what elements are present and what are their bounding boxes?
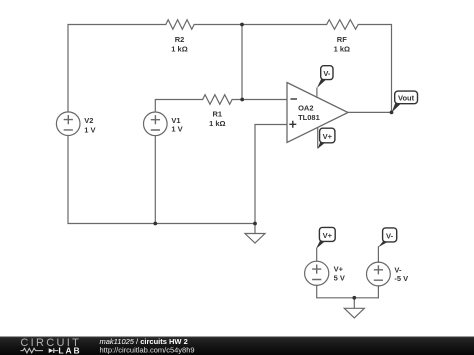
svg-text:1 kΩ: 1 kΩ [209,119,225,128]
svg-text:5 V: 5 V [334,274,345,283]
svg-text:1 kΩ: 1 kΩ [171,44,187,53]
wire ground stub 2 [353,298,355,309]
node flag V- (supply rail) [378,228,397,247]
svg-text:V+: V+ [323,132,333,141]
junction ground rail [253,222,257,226]
wire V1 top to R1 [155,100,202,112]
wire op-amp non-inverting input down [255,125,287,224]
resistor R1 [203,95,233,105]
resistor RF [327,20,359,30]
node flag Vout [392,91,418,112]
ground (main) [245,234,265,244]
wire R2 to RF [194,24,327,26]
wire V2 top loop [68,25,166,113]
footer credits [100,337,195,355]
svg-text:http://circuitlab.com/c54y8h9: http://circuitlab.com/c54y8h9 [100,346,195,355]
svg-text:V-: V- [386,231,394,240]
node flag V- (op-amp negative supply) [317,66,333,88]
junction output node Vout [390,111,394,115]
junction inverting input node [240,98,244,102]
voltage source V1 [144,112,168,136]
svg-text:OA2: OA2 [298,103,313,112]
wire V- source top [377,247,379,262]
svg-text:1 V: 1 V [171,125,182,134]
resistor R2 [166,20,194,30]
junction top feedback node [240,23,244,27]
junction supply ground [352,296,356,300]
node flag V+ (supply rail) [316,227,335,249]
svg-text:1 kΩ: 1 kΩ [334,44,350,53]
wire V1 bottom [154,136,156,224]
CircuitLab logo [20,337,81,355]
wire V- source bottom [377,286,379,298]
svg-text:R1: R1 [213,110,223,119]
wire top junction down to inverting node [241,25,243,100]
voltage source V2 [56,112,80,136]
wire V+ source top [316,249,318,261]
voltage source V+ 5V [305,261,329,285]
svg-text:RF: RF [337,35,347,44]
svg-text:TL081: TL081 [298,113,320,122]
junction V1 bottom rail [153,222,157,226]
wire bottom rail [68,136,255,224]
svg-text:V2: V2 [84,116,93,125]
ground (supply) [344,308,364,318]
wire V+ source bottom rail [317,285,379,297]
op-amp OA2 TL081 [287,83,348,149]
wire ground stub [254,224,256,234]
svg-text:LAB: LAB [58,345,81,355]
svg-text:V-: V- [323,69,331,78]
voltage source V- -5V [367,262,391,286]
wire R1 to op-amp inverting input [232,99,287,101]
svg-text:1 V: 1 V [84,125,95,134]
svg-text:V-: V- [394,265,402,274]
svg-text:R2: R2 [175,35,185,44]
wire RF right down to output [358,25,391,113]
svg-text:-5 V: -5 V [394,274,408,283]
svg-text:V+: V+ [334,265,344,274]
svg-text:Vout: Vout [398,94,415,103]
wire op-amp output [348,111,392,113]
node flag V+ (op-amp positive supply) [318,128,335,149]
svg-text:V+: V+ [323,231,333,240]
